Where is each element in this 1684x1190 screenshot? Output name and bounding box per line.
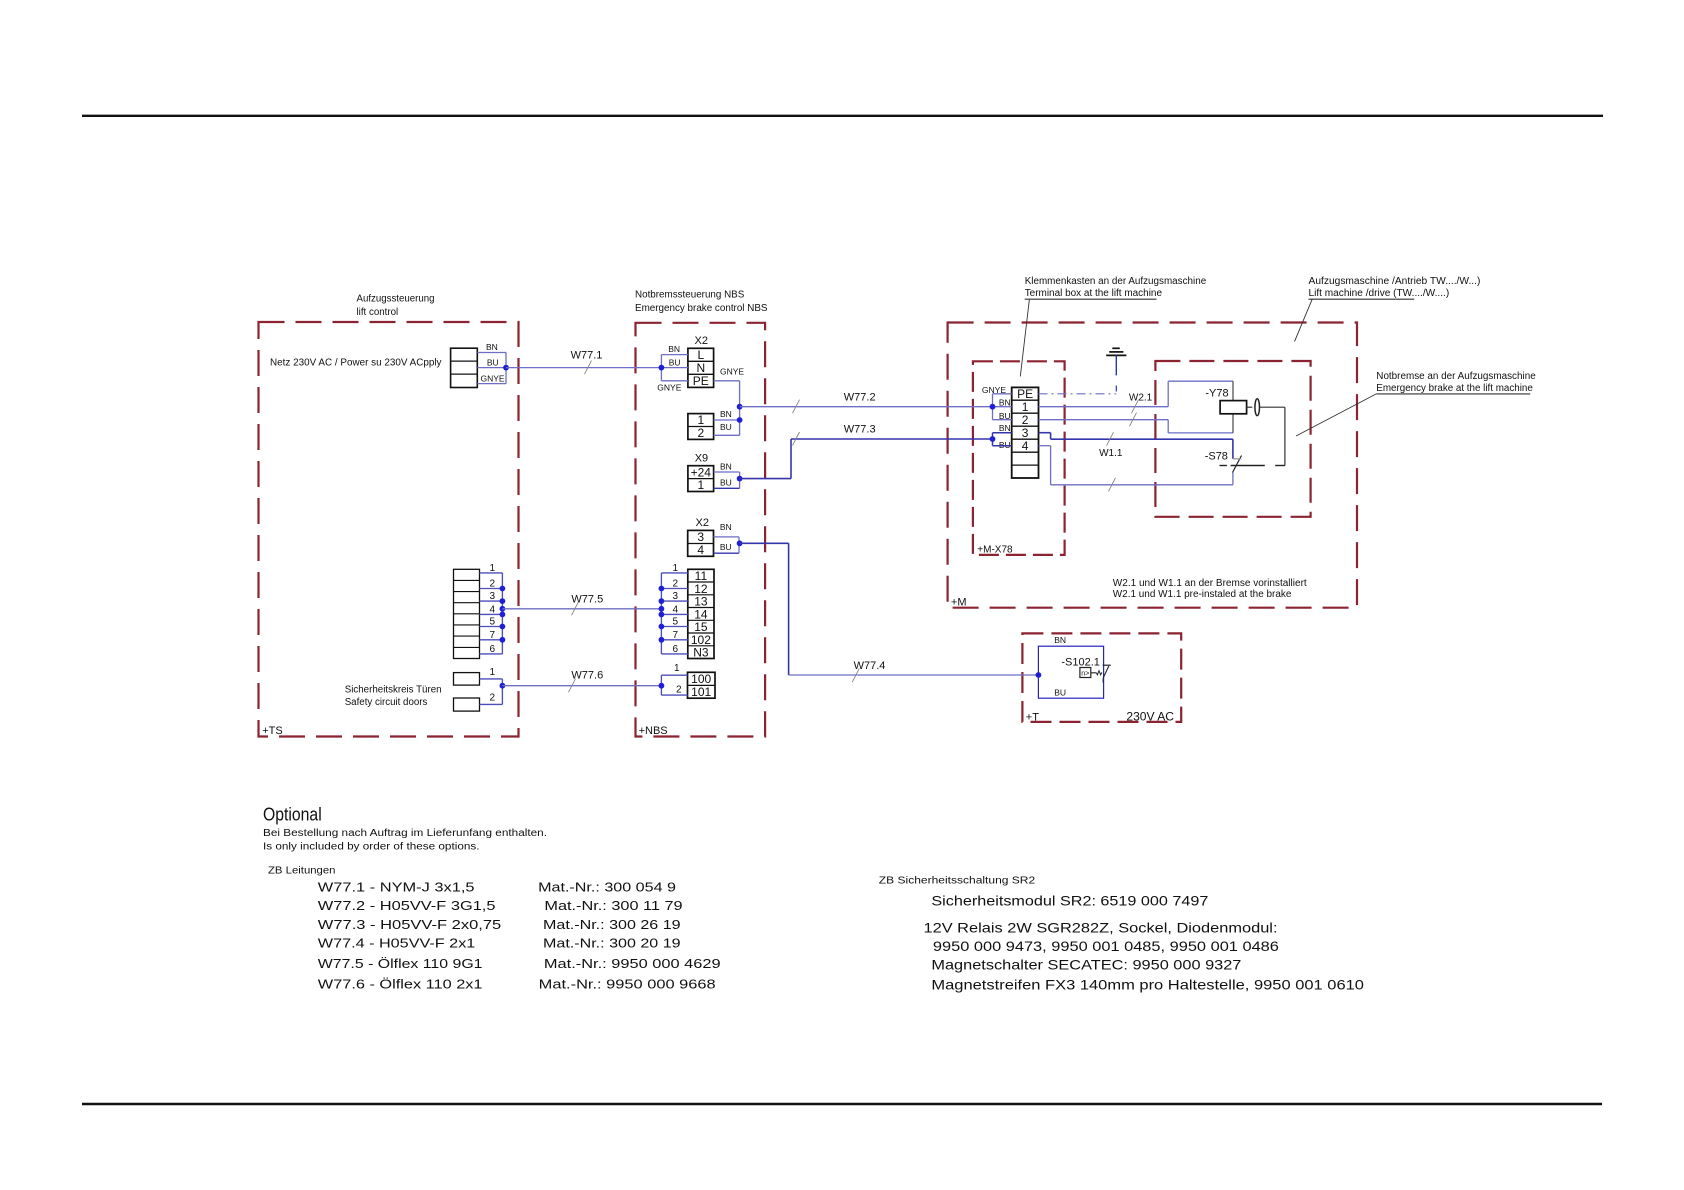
pin label 3 (TS stack) <box>489 591 495 602</box>
svg-text:BN: BN <box>720 461 732 471</box>
svg-text:1: 1 <box>697 478 704 492</box>
value label W77.5 <box>318 957 721 971</box>
svg-text:BU: BU <box>720 422 732 432</box>
svg-text:-S78: -S78 <box>1205 450 1228 462</box>
pin 4 (X78) <box>1022 439 1029 453</box>
cable slash W77.3 <box>793 432 800 446</box>
wire X2-L lead <box>661 354 688 356</box>
label 230V AC <box>1126 710 1174 724</box>
wire 100/101 bus <box>660 675 662 695</box>
wire X2-3 lead <box>714 536 740 538</box>
wire TS mains bus <box>505 353 507 384</box>
pin 14 (NBS stack) <box>694 607 708 621</box>
pin PE (X78) <box>1017 387 1033 401</box>
junction X78 W77.2 <box>990 404 996 410</box>
label +M-X78 <box>977 544 1013 555</box>
svg-text:W77.6 - Ölflex 110 2x1: W77.6 - Ölflex 110 2x1 <box>318 978 483 992</box>
svg-text:W1.1: W1.1 <box>1099 448 1123 459</box>
cable slash W1.1 core1 <box>1107 432 1114 446</box>
wire NBS stack pin 3 <box>661 600 687 602</box>
svg-text:W77.6: W77.6 <box>571 669 603 681</box>
pin label 5 (TS stack) <box>489 617 495 628</box>
pin label 2 (TS stack) <box>489 579 495 590</box>
cable slash W2.1 core1 <box>1132 400 1139 414</box>
svg-text:Emergency brake at the lift ma: Emergency brake at the lift machine <box>1376 383 1533 394</box>
pin label BN (TS mains) <box>486 342 498 352</box>
pin label 7 (TS stack) <box>489 630 495 641</box>
pin label BU (X2 NBS) <box>669 358 681 368</box>
svg-text:6: 6 <box>673 644 679 655</box>
cable slash W2.1 core2 <box>1130 413 1137 427</box>
svg-text:BU: BU <box>669 358 681 368</box>
svg-text:2: 2 <box>489 579 495 590</box>
ground symbol <box>1106 348 1126 355</box>
heading Optional <box>263 804 322 824</box>
wire X2-N lead <box>661 367 688 369</box>
svg-text:100: 100 <box>691 672 711 686</box>
svg-text:+24: +24 <box>691 465 712 479</box>
label -S102.1 <box>1061 657 1100 669</box>
cable label W77.5 <box>571 594 603 606</box>
wire X2 NBS bus <box>660 355 662 381</box>
wire X78 bus 3-4 <box>992 433 994 446</box>
svg-text:L: L <box>697 348 704 362</box>
wire 100 lead <box>661 674 687 676</box>
svg-text:BU: BU <box>487 358 499 368</box>
svg-text:W2.1 und W1.1 pre-instaled at: W2.1 und W1.1 pre-instaled at the brake <box>1113 589 1292 600</box>
cable label W1.1 <box>1099 448 1123 459</box>
svg-text:3: 3 <box>489 591 495 602</box>
value label W77.2 <box>318 899 683 913</box>
wire W2.1 core1 <box>1039 381 1234 407</box>
wire X78 pin3 lead <box>993 432 1012 434</box>
svg-text:Optional: Optional <box>263 804 322 824</box>
bottom page rule <box>82 1103 1602 1105</box>
switch -S78 contact <box>1220 465 1285 467</box>
connector TS multi-pin stack <box>454 569 480 658</box>
svg-text:3: 3 <box>673 591 679 602</box>
pin 2 (NBS 1/2) <box>697 426 704 440</box>
terminal 1/2 (NBS) <box>688 414 714 440</box>
enclosure +M-X78 terminal box dashed box <box>973 361 1065 555</box>
wire X9 +24 lead <box>714 471 740 473</box>
junction X2 3/4 <box>737 540 743 546</box>
title Klemmenkasten an der Aufzugsmaschine <box>1025 276 1207 299</box>
connector door contact 2 <box>454 698 480 711</box>
svg-text:101: 101 <box>691 685 711 699</box>
wire coil bottom lead <box>1232 414 1234 433</box>
svg-text:7: 7 <box>489 630 495 641</box>
svg-text:GNYE: GNYE <box>720 366 744 376</box>
label Netz 230V AC <box>270 358 442 369</box>
wire NBS stack pin 1 <box>661 572 687 574</box>
pin label BN1 (X78) <box>999 398 1011 408</box>
svg-text:230V AC: 230V AC <box>1126 710 1174 724</box>
enclosure +NBS dashed box <box>636 323 766 737</box>
wire NBS stack bus <box>660 573 662 654</box>
svg-text:W2.1 und W1.1 an der Bremse vo: W2.1 und W1.1 an der Bremse vorinstallie… <box>1113 578 1307 589</box>
coil -Y78 <box>1220 401 1247 414</box>
brake pad symbol <box>1255 399 1260 416</box>
pin N3 (NBS stack) <box>693 646 709 660</box>
pin label 1 (NBS 100) <box>674 663 680 674</box>
wire PE to GNYE bus <box>714 380 740 382</box>
svg-text:ZB Leitungen: ZB Leitungen <box>268 865 336 876</box>
terminal NBS stack 11-N3 <box>688 569 714 658</box>
wire NBS stack pin 4 <box>661 613 687 615</box>
junction NBS stack y626.5 <box>659 624 665 630</box>
svg-text:Klemmenkasten an der Aufzugsma: Klemmenkasten an der Aufzugsmaschine <box>1025 276 1207 287</box>
cable slash W77.2 <box>793 400 800 414</box>
pin label 6 (NBS stack) <box>673 644 679 655</box>
junction TS stack y614.4 <box>500 612 506 618</box>
pin N <box>696 361 705 375</box>
svg-text:4: 4 <box>697 543 704 557</box>
wire coil top lead <box>1232 381 1234 400</box>
junction doors TS <box>500 683 506 689</box>
svg-text:Is only included by order of t: Is only included by order of these optio… <box>263 842 480 853</box>
value label W77.3 <box>318 918 681 932</box>
svg-text:BN: BN <box>720 522 732 532</box>
pin label BN2 (X78) <box>999 423 1011 433</box>
terminal X9 (+24/1) <box>688 466 714 492</box>
svg-text:Mat.-Nr.: 300 20 19: Mat.-Nr.: 300 20 19 <box>543 937 681 951</box>
pin label 3 (NBS stack) <box>673 591 679 602</box>
svg-text:Emergency brake control NBS: Emergency brake control NBS <box>635 303 768 314</box>
connector door contact 1 <box>454 673 480 686</box>
svg-text:BU: BU <box>1054 688 1066 698</box>
svg-text:+NBS: +NBS <box>639 725 668 737</box>
leader line to machine box <box>1295 299 1313 341</box>
svg-text:1: 1 <box>489 667 495 678</box>
svg-text:2: 2 <box>1022 413 1029 427</box>
junction X2 NBS <box>659 365 665 371</box>
cable label W77.6 <box>571 669 603 681</box>
svg-text:9950 000 9473, 9950 001 0485,: 9950 000 9473, 9950 001 0485, 9950 001 0… <box>933 938 1279 954</box>
pin 3 (X78) <box>1022 426 1029 440</box>
wire X78 pin4 lead <box>993 445 1012 447</box>
heading ZB Sicherheitsschaltung SR2 <box>879 875 1036 886</box>
pin label 1 (NBS stack) <box>673 563 679 574</box>
wire W77.6 <box>502 685 661 687</box>
pin label 4 (NBS stack) <box>673 604 679 615</box>
svg-text:2: 2 <box>697 426 704 440</box>
junction TS mains <box>503 365 509 371</box>
wire W77.4 <box>740 543 1039 675</box>
wire TS stack pin 1 <box>480 572 503 574</box>
title Aufzugssteuerung / lift control <box>357 294 435 319</box>
svg-text:W77.3 - H05VV-F 2x0,75: W77.3 - H05VV-F 2x0,75 <box>318 918 501 932</box>
terminal X2 3/4 (NBS) <box>688 530 714 556</box>
junction NBS stack y614.4 <box>659 612 665 618</box>
svg-text:Mat.-Nr.: 300 054 9: Mat.-Nr.: 300 054 9 <box>538 881 676 895</box>
svg-text:PE: PE <box>1017 387 1033 401</box>
pin 3 (X2) <box>697 530 704 544</box>
pin 11 (NBS stack) <box>695 569 708 583</box>
wire PE dash-dot <box>1039 393 1117 395</box>
svg-text:+M: +M <box>951 597 967 609</box>
label -Y78 <box>1205 388 1228 400</box>
wire coil to pad <box>1247 406 1253 408</box>
svg-text:ZB Sicherheitsschaltung SR2: ZB Sicherheitsschaltung SR2 <box>879 875 1036 886</box>
svg-text:W77.2: W77.2 <box>844 392 876 404</box>
pin 101 <box>691 685 711 699</box>
svg-text:Magnetstreifen FX3 140mm pro H: Magnetstreifen FX3 140mm pro Haltestelle… <box>931 976 1364 992</box>
svg-text:Aufzugssteuerung: Aufzugssteuerung <box>357 294 435 305</box>
svg-text:W77.2 - H05VV-F 3G1,5: W77.2 - H05VV-F 3G1,5 <box>318 899 496 913</box>
pin 102 (NBS stack) <box>691 633 711 647</box>
pin label 4 (TS stack) <box>489 604 495 615</box>
enclosure machine drive dashed box <box>1155 361 1310 517</box>
cable slash W77.5 <box>572 602 579 616</box>
label Sicherheitskreis Tueren <box>345 684 442 708</box>
label +M <box>951 597 967 609</box>
text Magnetschalter <box>931 956 1241 972</box>
heading ZB Leitungen <box>268 865 336 876</box>
junction NBS stack y601.1 <box>659 598 665 604</box>
svg-text:Notbremssteuerung NBS: Notbremssteuerung NBS <box>635 290 745 301</box>
pin +24 <box>691 465 712 479</box>
wire X2 3/4 bus <box>738 537 740 553</box>
svg-text:N: N <box>696 361 705 375</box>
junction W77.2 takeoff <box>737 404 743 410</box>
svg-text:BN: BN <box>668 344 680 354</box>
svg-text:BN: BN <box>999 423 1011 433</box>
svg-text:BU: BU <box>720 542 732 552</box>
svg-text:5: 5 <box>489 617 495 628</box>
wire TS stack pin 6 <box>480 653 503 655</box>
junction NBS stack y588.5 <box>659 586 665 592</box>
wire W1.1 core1 <box>1039 433 1233 459</box>
wire door bus <box>501 679 503 705</box>
value label W77.1 <box>318 881 676 895</box>
pin label BN (NBS 1/2) <box>720 409 732 419</box>
cable label W2.1 <box>1129 392 1153 403</box>
svg-text:3: 3 <box>697 530 704 544</box>
svg-text:2: 2 <box>673 579 679 590</box>
text Is only included <box>263 842 480 853</box>
wire W77.5 <box>502 608 661 610</box>
pin label GNYE (X78) <box>982 385 1006 395</box>
svg-text:1: 1 <box>697 413 704 427</box>
wire TS stack pin 7 <box>480 639 503 641</box>
svg-text:Sicherheitskreis Türen: Sicherheitskreis Türen <box>345 684 442 695</box>
svg-text:GNYE: GNYE <box>657 383 681 393</box>
svg-text:GNYE: GNYE <box>481 373 505 383</box>
svg-text:W77.3: W77.3 <box>844 424 876 436</box>
pin label BU1 (X78) <box>999 411 1011 421</box>
svg-text:Mat.-Nr.: 9950 000 9668: Mat.-Nr.: 9950 000 9668 <box>539 978 716 992</box>
svg-text:X2: X2 <box>696 517 709 529</box>
pin label GNYE left (X2 NBS) <box>657 383 681 393</box>
wire door 1 <box>480 678 503 680</box>
cable slash W77.1 <box>585 361 592 375</box>
svg-text:W77.1: W77.1 <box>571 350 603 362</box>
enclosure +T dashed box <box>1022 633 1181 722</box>
pin label BU (TS mains) <box>487 358 499 368</box>
leader line to emergency brake <box>1296 394 1376 436</box>
svg-text:4: 4 <box>673 604 679 615</box>
pin 15 (NBS stack) <box>694 620 708 634</box>
svg-text:Mat.-Nr.: 300 26 19: Mat.-Nr.: 300 26 19 <box>543 918 681 932</box>
leader line to +M-X78 <box>1020 299 1029 376</box>
wire TS mains GNYE <box>477 383 506 385</box>
wire ground stem <box>1115 355 1117 375</box>
value label W77.4 <box>318 937 681 951</box>
terminal title X2 <box>695 335 708 347</box>
wire TS stack pin 3 <box>480 600 503 602</box>
pin label 1 (doors TS) <box>489 667 495 678</box>
svg-text:X2: X2 <box>695 335 708 347</box>
label -S78 <box>1205 450 1228 462</box>
enclosure +TS lift control dashed box <box>259 322 519 737</box>
wire X9 1 lead <box>714 487 740 489</box>
wire X78 pin1 lead <box>993 406 1012 408</box>
wire W77.1 <box>506 367 661 369</box>
pin 12 (NBS stack) <box>694 582 708 596</box>
svg-text:Terminal box at the lift machi: Terminal box at the lift machine <box>1025 288 1163 299</box>
pin 2 (X78) <box>1022 413 1029 427</box>
svg-text:12V Relais 2W SGR282Z, Sockel,: 12V Relais 2W SGR282Z, Sockel, Diodenmod… <box>924 919 1278 935</box>
svg-text:1: 1 <box>489 563 495 574</box>
pin label 1 (TS stack) <box>489 563 495 574</box>
cable label W77.2 <box>844 392 876 404</box>
svg-text:lift control: lift control <box>357 307 399 318</box>
pin label 2 (doors TS) <box>489 692 495 703</box>
svg-text:X9: X9 <box>695 452 708 464</box>
svg-text:Mat.-Nr.: 9950 000 4629: Mat.-Nr.: 9950 000 4629 <box>544 957 721 971</box>
label +NBS <box>639 725 668 737</box>
text Magnetstreifen <box>931 976 1364 992</box>
pin label 6 (TS stack) <box>489 644 495 655</box>
svg-text:+T: +T <box>1026 712 1039 724</box>
wire NBS stack pin 5 <box>661 626 687 628</box>
wire 1-lead (NBS 1/2) <box>714 419 740 421</box>
junction W77.4 at S102.1 <box>1036 672 1042 678</box>
svg-text:4: 4 <box>1022 439 1029 453</box>
wire X78 PE lead <box>993 393 1012 395</box>
terminal 100/101 (NBS) <box>688 672 716 698</box>
cable label W77.4 <box>854 660 886 672</box>
svg-text:BN: BN <box>1054 635 1066 645</box>
wire 2-lead (NBS 1/2) <box>714 434 740 436</box>
switch -S78 tick <box>1233 458 1242 460</box>
pin 1 (X9) <box>697 478 704 492</box>
top page rule <box>82 115 1603 117</box>
connector TS mains (BN/BU/GNYE) <box>451 348 478 387</box>
wire door 2 <box>480 703 503 705</box>
svg-text:W2.1: W2.1 <box>1129 392 1153 403</box>
svg-text:1: 1 <box>674 663 680 674</box>
text Bei Bestellung <box>263 828 547 839</box>
svg-text:W77.5: W77.5 <box>571 594 603 606</box>
svg-text:BN: BN <box>720 409 732 419</box>
svg-text:BU: BU <box>720 478 732 488</box>
pin 13 (NBS stack) <box>694 595 708 609</box>
junction NBS stack y639.8 <box>659 637 665 643</box>
text 12V Relais <box>924 919 1278 935</box>
text Sicherheitsmodul <box>931 893 1208 909</box>
svg-text:N3: N3 <box>693 646 709 660</box>
cable label W77.1 <box>571 350 603 362</box>
svg-text:BN: BN <box>486 342 498 352</box>
switch -S78 blade <box>1233 456 1242 473</box>
pin 1 (NBS 1/2) <box>697 413 704 427</box>
svg-text:-Y78: -Y78 <box>1205 388 1228 400</box>
svg-text:Mat.-Nr.: 300 11 79: Mat.-Nr.: 300 11 79 <box>544 899 682 913</box>
svg-text:1: 1 <box>1022 400 1029 414</box>
wire X78 bus PE-1-2 <box>992 394 994 420</box>
svg-text:Netz 230V AC / Power su 230V A: Netz 230V AC / Power su 230V ACpply <box>270 358 442 369</box>
wire ground dash <box>1115 386 1117 392</box>
terminal X2 L/N/PE (NBS) <box>688 348 714 387</box>
pin label 5 (NBS stack) <box>673 617 679 628</box>
wire TS stack pin 5 <box>480 626 503 628</box>
note W2.1 W1.1 pre-installed <box>1113 578 1307 600</box>
pin label BN (X2 3/4) <box>720 522 732 532</box>
svg-text:3: 3 <box>1022 426 1029 440</box>
junction TS stack y639.8 <box>500 637 506 643</box>
svg-text:W77.1 - NYM-J 3x1,5: W77.1 - NYM-J 3x1,5 <box>318 881 475 895</box>
junction NBS stack y608.8 <box>659 606 665 612</box>
junction TS stack y626.5 <box>500 624 506 630</box>
box -S102.1 <box>1038 646 1103 698</box>
pin label 2 (NBS stack) <box>673 579 679 590</box>
wire X9 bus <box>739 472 741 488</box>
pin label BN (X9) <box>720 461 732 471</box>
pin label BU (S102.1) <box>1054 688 1066 698</box>
title Notbremse an der Aufzugsmaschine <box>1376 371 1536 394</box>
terminal block X78 (PE,1,2,3,4) <box>1012 387 1039 478</box>
wire TS stack pin 2 <box>480 588 503 590</box>
svg-text:2: 2 <box>676 685 682 696</box>
junction TS stack y608.8 <box>500 606 506 612</box>
junction X78 W77.3 <box>990 436 996 442</box>
wire NBS stack pin 2 <box>661 588 687 590</box>
title Notbremssteuerung NBS <box>635 290 768 315</box>
pin 1 (X78) <box>1022 400 1029 414</box>
svg-text:Lift machine /drive (TW..../W.: Lift machine /drive (TW..../W....) <box>1309 288 1450 299</box>
svg-text:+M-X78: +M-X78 <box>977 544 1013 555</box>
cable slash W77.4 <box>852 669 859 683</box>
wire 101 lead <box>661 694 687 696</box>
pin label BU (X9) <box>720 478 732 488</box>
cable slash W1.1 core2 <box>1109 478 1116 492</box>
svg-text:Notbremse an der Aufzugsmaschi: Notbremse an der Aufzugsmaschine <box>1376 371 1536 382</box>
svg-text:-S102.1: -S102.1 <box>1061 657 1100 669</box>
junction NBS 1/2 bus <box>737 417 743 423</box>
wire X78 pin2 lead <box>993 419 1012 421</box>
junction TS stack y601.1 <box>500 598 506 604</box>
value label W77.6 <box>318 978 716 992</box>
cable label W77.3 <box>844 424 876 436</box>
svg-text:Bei Bestellung nach Auftrag im: Bei Bestellung nach Auftrag im Lieferunf… <box>263 828 547 839</box>
pin PE <box>693 374 709 388</box>
wire pad to S78 branch <box>1260 407 1285 465</box>
pin label BN (S102.1) <box>1054 635 1066 645</box>
text 9950 000 9473 <box>933 938 1279 954</box>
svg-text:Sicherheitsmodul SR2: 6519 000: Sicherheitsmodul SR2: 6519 000 7497 <box>931 893 1208 909</box>
svg-text:Safety circuit doors: Safety circuit doors <box>345 697 428 708</box>
pin label 7 (NBS stack) <box>673 630 679 641</box>
wire TS mains BU <box>477 367 506 369</box>
terminal title X2 (3/4) <box>696 517 709 529</box>
wire TS stack pin 4 <box>480 613 503 615</box>
sensor symbol (S102.1) <box>1080 668 1091 678</box>
wire NBS stack pin 7 <box>661 639 687 641</box>
pin label 2 (NBS 101) <box>676 685 682 696</box>
wire NBS stack pin 6 <box>661 653 687 655</box>
